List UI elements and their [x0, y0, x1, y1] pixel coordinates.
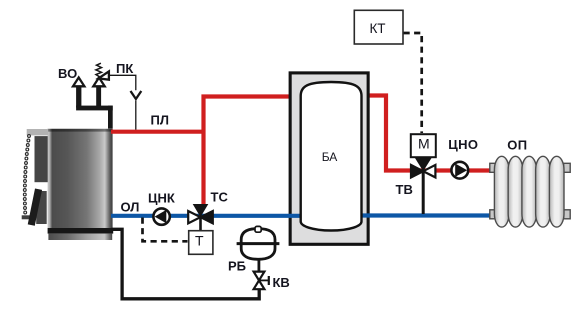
actuator box М	[411, 134, 436, 157]
svg-text:КВ: КВ	[273, 275, 290, 290]
svg-text:ОП: ОП	[507, 137, 527, 152]
svg-text:ОЛ: ОЛ	[121, 200, 140, 215]
svg-text:Т: Т	[195, 233, 204, 249]
three-way valve ТВ	[411, 157, 435, 214]
svg-text:РБ: РБ	[228, 259, 246, 274]
radiator ОП	[490, 156, 570, 227]
boiler door handle	[22, 188, 42, 225]
expansion tank РБ	[237, 226, 280, 270]
buffer tank БА inner vessel	[301, 82, 362, 231]
three-way valve ТС	[188, 204, 213, 231]
label КВ	[273, 275, 290, 290]
svg-text:ЦНК: ЦНК	[148, 191, 175, 206]
svg-text:М: М	[418, 136, 430, 152]
red riser to buffer tank	[204, 97, 290, 206]
boiler body	[48, 129, 114, 240]
top pipe assembly (thick black)	[76, 86, 113, 129]
svg-text:ВО: ВО	[58, 66, 77, 81]
svg-text:БА: БА	[322, 150, 338, 164]
red supply pipe ПЛ from boiler	[111, 130, 204, 134]
label ПЛ	[151, 113, 169, 128]
svg-text:ПЛ: ПЛ	[151, 113, 169, 128]
boiler chain	[23, 135, 30, 214]
thermostat box Т	[189, 231, 213, 255]
drain valve КВ	[254, 272, 269, 290]
black bottom loop with drain	[112, 229, 260, 298]
label ЦНК	[148, 191, 175, 206]
svg-text:ТС: ТС	[211, 189, 229, 204]
boiler flue stub	[27, 129, 49, 135]
svg-text:ТВ: ТВ	[396, 182, 413, 197]
blue return pipe radiator to buffer tank	[361, 213, 496, 217]
pump ЦНО	[451, 162, 468, 179]
safety valve ПК symbol	[93, 63, 109, 86]
label ОП	[507, 137, 527, 152]
label ТВ	[396, 182, 413, 197]
dashed control line thermostat Т to pump	[143, 218, 188, 242]
red pipe from buffer tank to radiator	[368, 96, 495, 171]
label ПК	[116, 61, 133, 76]
svg-text:КТ: КТ	[369, 21, 385, 36]
svg-text:ЦНО: ЦНО	[448, 137, 478, 152]
label ТС	[211, 189, 229, 204]
buffer tank БА shell	[290, 73, 368, 244]
label ВО	[58, 66, 77, 81]
discharge line from ПК	[109, 75, 141, 130]
air vent ВО symbol	[73, 78, 84, 87]
boiler lower door	[36, 191, 47, 224]
svg-text:ПК: ПК	[116, 61, 133, 76]
label ОЛ	[121, 200, 140, 215]
dashed control line КТ to М	[404, 33, 422, 133]
blue return pipe ОЛ	[111, 214, 302, 218]
label ЦНО	[448, 137, 478, 152]
room thermostat box КТ	[354, 10, 403, 44]
label РБ	[228, 259, 246, 274]
pump ЦНК	[153, 208, 169, 224]
boiler upper door	[35, 136, 48, 182]
